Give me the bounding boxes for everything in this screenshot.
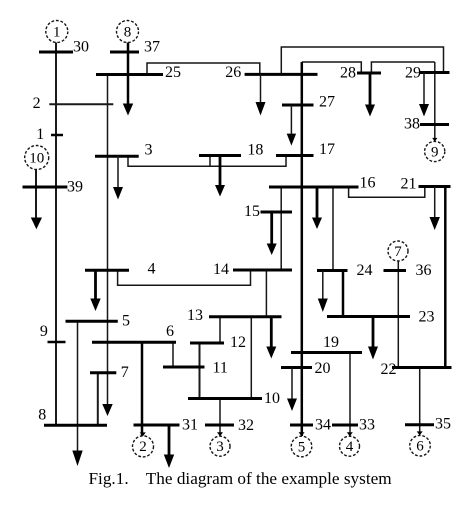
- svg-text:17: 17: [319, 141, 335, 158]
- svg-text:39: 39: [67, 178, 83, 195]
- svg-text:7: 7: [121, 364, 129, 381]
- svg-text:21: 21: [401, 176, 417, 193]
- svg-text:2: 2: [139, 439, 147, 455]
- svg-text:6: 6: [166, 323, 174, 340]
- svg-text:9: 9: [431, 145, 439, 161]
- svg-text:4: 4: [346, 439, 354, 455]
- svg-text:25: 25: [165, 64, 181, 81]
- svg-text:34: 34: [315, 417, 331, 434]
- svg-text:28: 28: [340, 65, 356, 82]
- svg-text:1: 1: [36, 126, 44, 143]
- svg-text:1: 1: [53, 24, 61, 40]
- svg-text:37: 37: [144, 39, 160, 56]
- svg-text:8: 8: [38, 406, 46, 423]
- svg-text:33: 33: [359, 417, 375, 434]
- svg-text:3: 3: [216, 439, 224, 455]
- svg-text:5: 5: [298, 439, 306, 455]
- svg-text:10: 10: [264, 390, 280, 407]
- svg-text:15: 15: [244, 203, 260, 220]
- svg-text:7: 7: [394, 244, 402, 260]
- svg-text:8: 8: [124, 24, 132, 40]
- svg-text:24: 24: [357, 262, 373, 279]
- svg-text:3: 3: [145, 142, 153, 159]
- svg-text:38: 38: [404, 116, 420, 133]
- svg-text:35: 35: [435, 416, 451, 433]
- svg-text:29: 29: [405, 65, 421, 82]
- svg-text:19: 19: [323, 334, 339, 351]
- svg-text:26: 26: [225, 64, 241, 81]
- svg-text:11: 11: [213, 360, 228, 377]
- svg-text:27: 27: [319, 94, 335, 111]
- svg-text:10: 10: [29, 150, 44, 166]
- svg-text:4: 4: [148, 261, 156, 278]
- svg-text:13: 13: [187, 307, 203, 324]
- svg-text:32: 32: [238, 417, 254, 434]
- svg-text:30: 30: [73, 39, 89, 56]
- svg-text:6: 6: [416, 439, 424, 455]
- svg-text:14: 14: [213, 261, 229, 278]
- svg-text:31: 31: [182, 417, 198, 434]
- svg-text:36: 36: [416, 262, 432, 279]
- svg-text:12: 12: [230, 334, 246, 351]
- svg-text:Fig.1. The diagram of the e: Fig.1. The diagram of the example system: [89, 469, 393, 488]
- svg-text:2: 2: [33, 95, 41, 112]
- svg-text:18: 18: [247, 142, 263, 159]
- svg-text:9: 9: [40, 323, 48, 340]
- svg-text:23: 23: [419, 309, 435, 326]
- svg-text:16: 16: [360, 175, 376, 192]
- svg-text:5: 5: [122, 313, 130, 330]
- svg-text:20: 20: [315, 360, 331, 377]
- svg-text:22: 22: [381, 361, 397, 378]
